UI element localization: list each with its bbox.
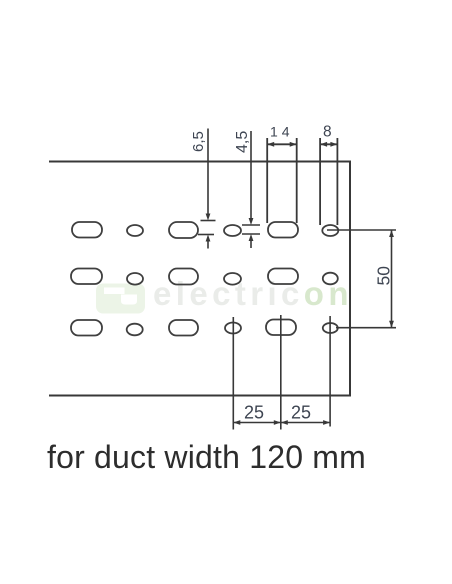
svg-text:4,5: 4,5	[234, 131, 251, 153]
svg-text:8: 8	[323, 124, 332, 141]
svg-text:25: 25	[291, 403, 311, 423]
svg-text:6,5: 6,5	[190, 131, 207, 152]
svg-text:25: 25	[244, 403, 264, 423]
svg-text:14: 14	[270, 124, 294, 140]
svg-text:50: 50	[374, 266, 394, 286]
